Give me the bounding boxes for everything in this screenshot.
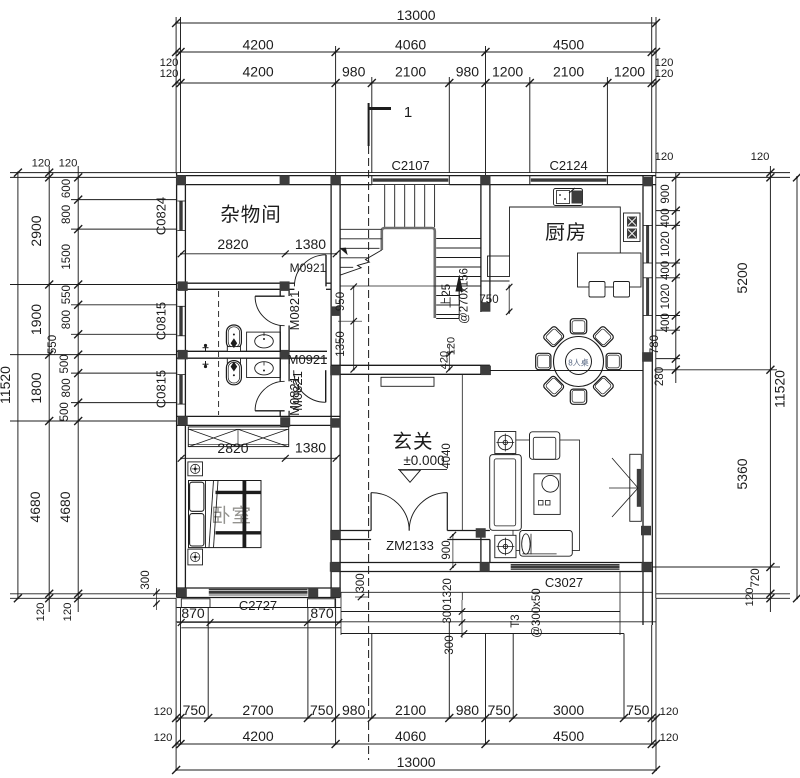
dining open boundary line (y=370.5) [490, 370, 643, 372]
bedroom south wall with window C2727 (y=592.6) [177, 587, 341, 589]
column C2/y567 [480, 562, 490, 572]
rug outline [513, 440, 580, 551]
dim 280 tick [672, 366, 679, 373]
svg-text:1900: 1900 [28, 304, 44, 335]
svg-text:750: 750 [488, 702, 512, 718]
kitchen sink [554, 189, 583, 206]
plant table 2 [495, 535, 516, 557]
svg-text:C2107: C2107 [391, 158, 429, 173]
svg-text:M0821: M0821 [287, 291, 302, 331]
column A/y284 [178, 281, 188, 291]
svg-text:980: 980 [342, 64, 366, 80]
stair well outline [382, 228, 435, 318]
column D/y567 [642, 562, 652, 572]
svg-text:950: 950 [335, 292, 347, 311]
washbasin lower [247, 358, 281, 377]
svg-text:120: 120 [35, 603, 47, 622]
svg-text:4060: 4060 [395, 37, 426, 53]
svg-text:900: 900 [660, 184, 672, 203]
svg-text:300: 300 [140, 570, 152, 589]
window C2727 [209, 588, 308, 590]
dim 900 (porch) [452, 535, 454, 567]
column C2/top [481, 175, 491, 185]
door cabinet [630, 454, 642, 521]
wall between storage room and hall (y=284.5) with M0921 door opening [177, 282, 295, 284]
svg-text:2820: 2820 [217, 440, 248, 456]
entry double door ZM2133 [370, 493, 372, 531]
svg-text:5360: 5360 [734, 458, 750, 489]
svg-text:8人桌: 8人桌 [568, 358, 588, 368]
svg-text:M0921: M0921 [290, 261, 327, 275]
column B/porch [330, 530, 340, 540]
svg-text:120: 120 [32, 158, 51, 170]
svg-text:750: 750 [310, 702, 334, 718]
svg-text:2100: 2100 [395, 702, 426, 718]
svg-text:上25: 上25 [440, 284, 453, 308]
bed [189, 481, 262, 548]
svg-text:M0821: M0821 [290, 371, 305, 411]
coffee table [534, 474, 560, 515]
right overall chain 11520 [796, 176, 798, 598]
shoe cabinet [381, 377, 434, 386]
column C2 mid [480, 302, 490, 312]
interior dim 2820/1380 (storage) [181, 253, 336, 255]
column B/top [331, 175, 341, 185]
terrace verticals [340, 592, 342, 635]
column D mid [642, 352, 652, 362]
bath divider dashed [218, 291, 220, 415]
svg-text:13000: 13000 [397, 7, 436, 23]
svg-text:11520: 11520 [772, 370, 788, 408]
top extension lines [175, 17, 177, 173]
island stools [589, 282, 605, 298]
bedside table lower [188, 549, 203, 565]
bottom extension lines [175, 598, 177, 770]
column A2/y421 [280, 417, 290, 427]
svg-text:ZM2133: ZM2133 [386, 538, 434, 553]
stair right flight treads [436, 238, 481, 240]
svg-text:400: 400 [660, 208, 672, 227]
column A/south [177, 588, 187, 598]
dining chairs (8) [570, 319, 586, 334]
top exterior wall [176, 175, 656, 177]
svg-text:120: 120 [660, 706, 679, 718]
svg-text:300: 300 [444, 635, 456, 654]
south wall with window C3027 (y=567) [331, 562, 652, 564]
right extension lines [656, 172, 790, 174]
svg-text:800: 800 [61, 310, 73, 329]
bath / bedroom north wall (y=421) [177, 415, 341, 417]
left exterior wall [176, 173, 178, 598]
stair flight divider [458, 286, 460, 319]
svg-text:1020: 1020 [660, 231, 672, 257]
svg-text:800: 800 [61, 378, 73, 397]
svg-text:120: 120 [160, 68, 179, 80]
stair upper flight treads [384, 185, 386, 228]
svg-text:C0815: C0815 [154, 370, 169, 408]
svg-text:300: 300 [442, 604, 454, 623]
svg-text:120: 120 [751, 151, 770, 163]
svg-text:1: 1 [404, 104, 412, 121]
column A/top [176, 175, 186, 185]
svg-text:4200: 4200 [243, 37, 274, 53]
column B/y421 [330, 418, 340, 428]
floor drain upper [205, 345, 207, 352]
svg-text:750: 750 [479, 294, 498, 306]
svg-text:4200: 4200 [243, 728, 274, 744]
svg-text:980: 980 [342, 702, 366, 718]
column B/south [331, 588, 341, 598]
svg-text:900: 900 [441, 540, 453, 559]
section cut line (dash-dot vertical) [368, 146, 370, 760]
door M0821 (lobby south) [325, 370, 327, 402]
column D/top [643, 177, 653, 187]
svg-text:120: 120 [59, 158, 78, 170]
svg-text:1200: 1200 [492, 64, 523, 80]
interior dim 2820/1380 (bedroom) [181, 457, 336, 459]
column D/door [641, 526, 651, 536]
bottom dimension row 4200/4060/4500 [176, 743, 656, 745]
washbasin upper [247, 332, 281, 351]
top dimension row 13000 [176, 22, 656, 24]
column C2/porch [476, 528, 486, 538]
armchair [530, 432, 560, 460]
svg-text:±0.000: ±0.000 [403, 453, 444, 468]
svg-text:120: 120 [154, 706, 173, 718]
svg-text:2700: 2700 [242, 702, 273, 718]
top dimension row 4200/4060/4500 [176, 51, 656, 53]
svg-text:720: 720 [750, 568, 762, 587]
entry porch wall with ZM2133 opening (y=535) [331, 530, 371, 532]
kitchen island [578, 253, 642, 287]
svg-text:4200: 4200 [243, 64, 274, 80]
window (right wall upper 1020) [646, 225, 649, 263]
stair lower flight treads [436, 295, 459, 297]
svg-text:1350: 1350 [335, 331, 347, 357]
svg-text:1800: 1800 [28, 372, 44, 403]
hall south wall (y=369.8) [331, 364, 490, 366]
svg-text:C0824: C0824 [154, 197, 169, 235]
hall landing line [340, 285, 481, 287]
svg-text:13000: 13000 [397, 754, 436, 770]
svg-text:500: 500 [59, 354, 71, 373]
kitchen fridge [488, 256, 510, 277]
svg-text:2820: 2820 [217, 236, 248, 252]
svg-text:4060: 4060 [395, 728, 426, 744]
right inner chain 900/400/1020/400/1020/400/780/280 [675, 173, 677, 383]
svg-text:4680: 4680 [57, 491, 73, 522]
svg-text:T3: T3 [510, 614, 522, 627]
column A2/y354 [280, 350, 290, 360]
svg-text:2100: 2100 [553, 64, 584, 80]
window C0824 (left wall, storage) [177, 201, 184, 231]
door M0821 (upper bath) [255, 295, 285, 297]
wall linking porch to living room (x=485.5) [480, 531, 482, 572]
svg-text:厨房: 厨房 [545, 221, 587, 244]
bed headboard + pillows [205, 481, 207, 548]
left overall chain 11520 [17, 173, 19, 599]
bottom dimension row 750/2700/750/980/2100/980/750/3000/750 [176, 717, 656, 719]
svg-text:120: 120 [62, 603, 74, 622]
terrace parapet below bedroom [181, 599, 210, 608]
terrace/step lines [341, 591, 652, 593]
toilet upper [226, 325, 241, 349]
column B/y369 [330, 366, 340, 376]
svg-text:1020: 1020 [660, 284, 672, 310]
left extension lines [10, 172, 176, 174]
svg-text:C2727: C2727 [239, 598, 277, 613]
wall B (vertical x=335.6) [330, 176, 332, 598]
bedside table upper [188, 462, 203, 476]
window C3027 [511, 564, 620, 566]
wall between the two bathrooms (y=354.6) [177, 350, 327, 352]
svg-text:400: 400 [660, 261, 672, 280]
entry boundary line [461, 374, 463, 530]
stair flight bottom edge [436, 318, 459, 320]
window C0815 (left wall, bath 2) [179, 375, 182, 405]
plant table 1 [495, 432, 516, 454]
svg-text:C2124: C2124 [549, 158, 587, 173]
column A/y421 [178, 416, 188, 426]
svg-text:4500: 4500 [553, 728, 584, 744]
kitchen counter outline [510, 207, 621, 256]
svg-text:1320: 1320 [442, 578, 454, 604]
svg-text:750: 750 [626, 702, 650, 718]
column A2/y284 [280, 281, 290, 291]
svg-text:@300x50: @300x50 [531, 588, 543, 637]
svg-text:750: 750 [183, 702, 207, 718]
svg-text:玄关: 玄关 [392, 431, 433, 453]
column B mid [331, 306, 341, 316]
svg-text:800: 800 [61, 205, 73, 224]
bottom dimension row 13000 [176, 769, 656, 771]
window C0815 (left wall, bath 1) [179, 306, 182, 336]
column A2/top [280, 175, 290, 185]
right overhang edge line [655, 173, 657, 599]
svg-text:600: 600 [61, 179, 73, 198]
svg-text:550: 550 [47, 335, 59, 354]
svg-text:2900: 2900 [28, 215, 44, 246]
right chain 120/5200/5360/720/120 [769, 166, 771, 612]
toilet lower [227, 358, 240, 363]
svg-text:M0921: M0921 [288, 352, 328, 367]
column B/y567 [330, 562, 340, 572]
svg-text:1500: 1500 [61, 244, 73, 270]
svg-text:980: 980 [456, 64, 480, 80]
bath east wall (x=284.6) with two M0821 door openings [279, 289, 281, 296]
window C2107 (top wall, stair hall) [372, 175, 450, 177]
svg-text:500: 500 [59, 402, 71, 421]
column window end [308, 588, 318, 598]
window (right wall lower 1020) [646, 278, 649, 316]
svg-text:@270x156: @270x156 [459, 268, 471, 324]
bench with pillow [520, 531, 573, 557]
stair down arrow (left flight) [341, 248, 348, 254]
section mark 1 (top) [368, 107, 391, 110]
kitchen west wall (x=485.5) [480, 176, 482, 312]
stair direction arrow [456, 276, 462, 291]
left chain 120/2900/1900/1800/4680/120 [48, 166, 50, 612]
svg-text:2100: 2100 [395, 64, 426, 80]
floor drain lower [205, 361, 207, 368]
column C2/y369 [481, 366, 491, 376]
svg-text:3000: 3000 [553, 702, 584, 718]
top dimension row 4200/980/2100/980/1200/2100/1200 [176, 82, 656, 84]
bed fold lines [209, 481, 214, 548]
sofa [490, 455, 522, 531]
svg-text:120: 120 [154, 732, 173, 744]
window C2124 (top wall, kitchen) [531, 184, 607, 186]
column A/y354 [178, 350, 188, 360]
door M0821 (lower bath) [255, 410, 285, 412]
svg-text:550: 550 [61, 285, 73, 304]
svg-text:5200: 5200 [734, 262, 750, 293]
svg-text:C0815: C0815 [154, 302, 169, 340]
kitchen stove (2 burners) [624, 213, 641, 242]
svg-text:C3027: C3027 [545, 575, 583, 590]
stair break line with zigzag [340, 250, 382, 275]
left inner chain 600/800/1500/550/800/550/500/800/500/4680 [77, 166, 79, 612]
svg-text:1380: 1380 [295, 440, 326, 456]
svg-text:4500: 4500 [553, 37, 584, 53]
level symbol triangle [398, 469, 447, 471]
svg-text:120: 120 [655, 68, 674, 80]
bed quilt grid [216, 491, 262, 494]
svg-text:980: 980 [456, 702, 480, 718]
svg-text:120: 120 [660, 732, 679, 744]
right exterior wall [642, 176, 644, 625]
svg-text:400: 400 [660, 313, 672, 332]
svg-text:1200: 1200 [614, 64, 645, 80]
svg-text:11520: 11520 [0, 366, 13, 404]
svg-text:4680: 4680 [27, 491, 43, 522]
svg-text:杂物间: 杂物间 [220, 204, 282, 226]
svg-text:120: 120 [744, 588, 756, 607]
svg-text:120: 120 [655, 151, 674, 163]
wardrobe with X [188, 427, 288, 447]
dim 750 (kitchen door) [508, 285, 510, 315]
dim 950/1350 (hall) [353, 287, 355, 370]
dining table (8人桌) [554, 337, 604, 387]
top roof overhang line [176, 172, 656, 174]
svg-text:300: 300 [355, 573, 367, 592]
svg-text:1380: 1380 [295, 236, 326, 252]
door M0921 (storage to lobby) [325, 255, 327, 287]
svg-text:780: 780 [649, 335, 661, 354]
stair left flight treads [340, 228, 382, 230]
